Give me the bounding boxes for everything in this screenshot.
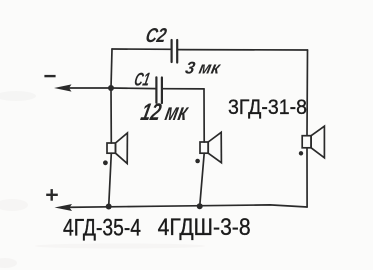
wire C1 branch [111,87,156,90]
minus sign [44,75,55,77]
speaker BA2 (4ГДШ-3-8) [195,132,221,163]
svg-text:3ГД-31-8: 3ГД-31-8 [228,95,307,119]
wire vertical right [306,50,309,136]
svg-text:4ГДШ-3-8: 4ГДШ-3-8 [158,214,251,241]
wire top (C2 branch) [112,48,171,50]
speaker BA1 (4ГД-35-4) [103,133,127,165]
wire minus lead [64,87,111,89]
wire vertical middle [203,89,205,142]
plus sign [46,189,58,201]
junction dot bottom-middle [197,203,203,209]
capacitor C2 [172,40,178,63]
svg-text:3 мк: 3 мк [184,57,223,77]
arrow minus terminal [54,84,72,91]
svg-text:4ГД-35-4: 4ГД-35-4 [63,215,141,242]
node A junction dot [108,85,114,91]
wire vertical left (node A column) [111,49,112,143]
arrow plus terminal [55,204,73,211]
wire bottom (plus lead) [64,205,307,208]
speaker BA3 (3ГД-31-8) [299,126,325,158]
svg-text:12 мк: 12 мк [138,99,191,126]
capacitor C1 [156,77,162,103]
junction dot bottom-left [106,204,112,210]
